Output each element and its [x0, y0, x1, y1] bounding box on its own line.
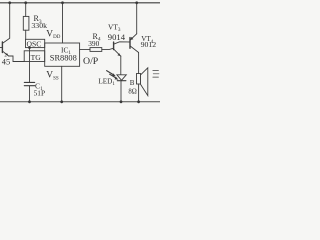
- svg-text:9014: 9014: [108, 32, 126, 42]
- transistor VT3: [114, 42, 130, 57]
- wire bottom VSS rail: [0, 101, 160, 103]
- resistor R3: [23, 3, 29, 40]
- IC U1 pin box TG: [24, 51, 45, 62]
- svg-text:SR8808: SR8808: [50, 53, 77, 62]
- svg-text:8Ω: 8Ω: [128, 88, 136, 95]
- svg-text:B: B: [130, 79, 135, 87]
- svg-text:9012: 9012: [141, 40, 157, 49]
- svg-text:O/P: O/P: [83, 56, 99, 67]
- node dot rail VDD: [61, 1, 64, 4]
- IC U1 pin box OSC: [26, 39, 45, 47]
- speaker B: [137, 68, 160, 102]
- wire VT3 emitter to LED: [120, 56, 122, 75]
- wire IC output O/P: [80, 48, 90, 50]
- svg-text:390: 390: [88, 39, 99, 48]
- label VT3 designator: [108, 22, 126, 42]
- transistor VT2 (partially cut at left edge): [0, 42, 9, 56]
- wire VT4 emitter riser to VDD rail: [136, 3, 138, 34]
- node dot ground LED: [120, 100, 123, 103]
- capacitor C1: [24, 48, 34, 102]
- node dot rail VT4 emitter: [135, 1, 138, 4]
- label speaker B: [128, 79, 136, 96]
- node dot ground VSS: [60, 100, 63, 103]
- node dot ground C1: [28, 100, 31, 103]
- wire IC VSS to ground rail: [61, 66, 63, 102]
- wire VT2 collector riser: [3, 3, 10, 44]
- wire VDD to IC: [62, 3, 64, 43]
- svg-text:330k: 330k: [31, 21, 47, 30]
- label R3 value: [31, 14, 47, 30]
- wire VT4 collector to speaker: [138, 53, 140, 74]
- wire R4 to VT3 base: [102, 48, 114, 49]
- label VT4 designator: [141, 35, 157, 49]
- node dot rail VT2: [8, 1, 11, 4]
- label R4 value: [88, 32, 101, 48]
- LED LED1: [107, 71, 127, 102]
- transistor VT4: [130, 34, 139, 53]
- wire VT2 emitter to TG: [9, 56, 25, 62]
- svg-text:TG: TG: [31, 53, 42, 62]
- svg-text:OSC: OSC: [27, 39, 42, 48]
- node dot ground speaker: [137, 100, 140, 103]
- node dot OSC / C1: [28, 46, 31, 49]
- svg-text:51P: 51P: [34, 88, 46, 97]
- label C1 value: [34, 81, 46, 97]
- resistor R4: [90, 48, 102, 52]
- wire top VDD rail: [0, 2, 160, 4]
- node dot rail R3: [24, 1, 27, 4]
- IC U1 SR8808 body: [45, 43, 80, 66]
- label VT2 designator (cut): [2, 54, 10, 67]
- svg-text:45: 45: [2, 57, 10, 66]
